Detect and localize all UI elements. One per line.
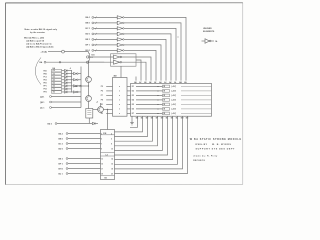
inverter U1C bbox=[117, 27, 124, 31]
svg-text:PD1: PD1 bbox=[44, 79, 47, 81]
diode CR3 row D3 bbox=[132, 94, 212, 97]
wire boxed gate2 output bbox=[122, 62, 146, 80]
svg-text:+3: +3 bbox=[96, 102, 98, 104]
wire Q3 to U2 pin bbox=[103, 109, 112, 111]
input pin P7 bbox=[86, 49, 97, 52]
bottom wire bbox=[57, 123, 89, 125]
border frame bbox=[5, 3, 242, 185]
U2 right pin stub to J1 bbox=[127, 112, 131, 114]
svg-text:R1: R1 bbox=[101, 104, 103, 106]
wire net BD 1 bbox=[94, 33, 118, 35]
svg-text:D1: D1 bbox=[132, 86, 134, 88]
transistor Q3 bbox=[98, 107, 104, 113]
wire gate7 output bbox=[124, 50, 156, 80]
svg-text:19: 19 bbox=[101, 173, 103, 175]
diode CR6 bbox=[89, 122, 98, 124]
U3 header bbox=[101, 133, 115, 135]
input pin QB 1 bbox=[40, 101, 81, 104]
input pin BD 1 bbox=[59, 148, 68, 151]
inverter U1J (boxed) bbox=[114, 60, 122, 64]
svg-text:(2) BA to up (0 V): (2) BA to up (0 V) bbox=[27, 40, 45, 43]
wire bus net BM bbox=[115, 116, 183, 169]
svg-text:(3) Cx to BA-PC (note 1): (3) Cx to BA-PC (note 1) bbox=[27, 43, 52, 46]
svg-text:PE1: PE1 bbox=[44, 83, 47, 85]
input pin BC 1 bbox=[59, 143, 68, 146]
svg-text:QB 1: QB 1 bbox=[40, 102, 44, 104]
inverter U1G bbox=[117, 49, 124, 53]
U3 footer bbox=[101, 176, 115, 180]
U2 left pin P7 bbox=[101, 95, 113, 97]
svg-text:1N: 1N bbox=[163, 91, 165, 93]
wire from net B to gate J bbox=[86, 61, 113, 63]
inverter U1B bbox=[117, 21, 124, 25]
input pin P4 bbox=[86, 33, 97, 36]
wire boxed gate1 output bbox=[122, 57, 151, 81]
pin circle gate I input bbox=[86, 55, 113, 59]
U2 left pin P5 bbox=[101, 86, 113, 88]
U2 internal pin dots bbox=[118, 86, 121, 114]
wire B down bbox=[88, 62, 90, 76]
IC U3 outline bbox=[101, 130, 115, 180]
input pin P3 bbox=[86, 27, 97, 30]
svg-text:SUPPORT SYS DES DEPT: SUPPORT SYS DES DEPT bbox=[196, 149, 236, 151]
svg-text:Note: a make BA-10 signal only: Note: a make BA-10 signal only bbox=[25, 28, 58, 31]
wire BC 1 to U3 bbox=[68, 143, 101, 145]
wire bus net BC bbox=[115, 116, 143, 132]
wire net BB 1 bbox=[94, 22, 118, 24]
svg-text:L1: L1 bbox=[91, 57, 93, 59]
svg-text:(+5V): (+5V) bbox=[172, 109, 177, 111]
wire bus net BD bbox=[115, 116, 148, 136]
svg-text:xx: xx bbox=[157, 86, 159, 88]
dashed enclosure around spare gates bbox=[111, 54, 137, 66]
input pin BE 1 bbox=[59, 158, 68, 161]
wire gate5 output bbox=[124, 39, 166, 80]
wire bus net BF bbox=[115, 116, 158, 146]
U2 left pin R1 bbox=[101, 104, 113, 106]
wire bus net BE bbox=[115, 116, 153, 141]
svg-text:1N: 1N bbox=[163, 100, 165, 102]
delay tap row PH1 bbox=[44, 91, 82, 94]
wire gate3 output bbox=[124, 28, 176, 80]
svg-text:1N: 1N bbox=[163, 86, 165, 88]
wire bus net BJ bbox=[115, 116, 168, 155]
bus wire vertical 1 bbox=[71, 70, 73, 93]
delay tap row PE1 bbox=[44, 81, 72, 84]
U2 right pin stub to J1 bbox=[127, 99, 131, 101]
svg-text:drawn by: R. Piety: drawn by: R. Piety bbox=[193, 155, 218, 158]
diode CR6 row D6 bbox=[132, 108, 212, 111]
wire bus net BH bbox=[115, 116, 163, 150]
svg-text:AJ: AJ bbox=[164, 81, 166, 84]
svg-text:9: 9 bbox=[101, 148, 102, 150]
svg-text:1N: 1N bbox=[163, 95, 165, 97]
svg-text:15: 15 bbox=[101, 163, 103, 165]
stub pin AB bbox=[135, 77, 137, 81]
wire B (BA bus) bbox=[40, 61, 105, 64]
IC U2 outline bbox=[113, 78, 128, 117]
transistor Q1 bbox=[86, 77, 92, 83]
svg-text:PF1: PF1 bbox=[44, 86, 47, 88]
svg-text:ELEMENTS: ELEMENTS bbox=[203, 31, 215, 33]
svg-text:(+5V): (+5V) bbox=[172, 95, 177, 97]
wire gate1 output bbox=[124, 17, 186, 80]
svg-text:1N: 1N bbox=[163, 109, 165, 111]
wire BH 1 to U3 bbox=[68, 168, 101, 170]
wire bus net BL bbox=[115, 116, 178, 164]
svg-text:xx: xx bbox=[157, 113, 159, 115]
svg-text:AL: AL bbox=[174, 81, 176, 84]
border left/top darker bbox=[6, 3, 243, 185]
wire BJ 1 to U3 bbox=[68, 173, 101, 175]
svg-text:3: 3 bbox=[101, 133, 102, 135]
input pin BJ 1 bbox=[59, 173, 68, 176]
U2 left pin R3 bbox=[101, 113, 113, 115]
svg-text:BD 2: BD 2 bbox=[48, 123, 52, 125]
svg-text:PH1: PH1 bbox=[44, 92, 47, 94]
svg-text:L4: L4 bbox=[106, 153, 108, 156]
inductor L1 bbox=[89, 52, 93, 63]
diode CR2 row D2 bbox=[132, 90, 212, 93]
input pin BA 1 bbox=[59, 132, 68, 135]
diode CR1 row D1 bbox=[132, 85, 212, 88]
svg-text:+10 (A): +10 (A) bbox=[41, 50, 48, 53]
svg-text:PC1: PC1 bbox=[44, 76, 47, 78]
wire net BF 1 bbox=[94, 44, 118, 46]
svg-text:R3: R3 bbox=[101, 113, 103, 115]
svg-text:18: 18 bbox=[111, 168, 113, 170]
wire gate6 output bbox=[124, 45, 161, 81]
wire net BA 1 bbox=[94, 16, 118, 18]
U2 right pin stub to J1 bbox=[127, 94, 131, 96]
svg-text:DWG-BY W. B. MYERS: DWG-BY W. B. MYERS bbox=[196, 144, 232, 146]
U2 left pin P8 bbox=[101, 100, 113, 102]
svg-text:Wire(1) PA to + (3V): Wire(1) PA to + (3V) bbox=[24, 36, 44, 39]
delay tap row PB1 bbox=[44, 72, 82, 75]
wire BB 1 to U3 bbox=[68, 138, 101, 140]
inverter U1D bbox=[117, 32, 124, 36]
delay tap row PA1 bbox=[44, 69, 72, 72]
input pin P6 bbox=[86, 44, 97, 47]
delay tap row PC1 bbox=[44, 75, 72, 78]
stray ink dot bbox=[178, 37, 179, 38]
wire bus net BK bbox=[115, 116, 173, 159]
svg-text:4B2: 4B2 bbox=[114, 75, 117, 78]
diode CR5 row D5 bbox=[132, 103, 212, 106]
top pin labels of J1 bbox=[134, 81, 187, 84]
U2 left pin P6 bbox=[101, 91, 113, 93]
U2 right pin stub to J1 bbox=[127, 85, 131, 87]
input pin BB 1 bbox=[59, 138, 68, 141]
wire net BC 1 bbox=[94, 27, 118, 29]
svg-text:B2: B2 bbox=[105, 178, 107, 180]
svg-text:(+5V): (+5V) bbox=[172, 86, 177, 88]
svg-text:xx: xx bbox=[157, 109, 159, 111]
delay tap row PD1 bbox=[44, 78, 82, 81]
diode CR4 row D4 bbox=[132, 99, 212, 102]
inverter U1A bbox=[117, 16, 124, 20]
connector block J1 outline bbox=[131, 84, 212, 117]
wire DL1 to Q3 bbox=[93, 109, 98, 111]
wire BA 1 to U3 bbox=[68, 133, 101, 135]
svg-text:1N: 1N bbox=[163, 113, 165, 115]
svg-text:D5: D5 bbox=[132, 104, 134, 106]
svg-text:10: 10 bbox=[111, 148, 113, 150]
wire BE 1 to U3 bbox=[68, 158, 101, 160]
svg-text:PG1: PG1 bbox=[44, 89, 47, 91]
inverter U1E bbox=[117, 38, 124, 42]
delay tap row PG1 bbox=[44, 88, 72, 91]
svg-text:PB1: PB1 bbox=[44, 73, 47, 75]
transistor Q2 bbox=[86, 96, 92, 102]
svg-text:xx: xx bbox=[157, 104, 159, 106]
input pin BD2 bbox=[48, 123, 57, 126]
wire net BE 1 bbox=[94, 38, 118, 40]
svg-text:W BA STATIC STROBE MODULE: W BA STATIC STROBE MODULE bbox=[190, 138, 242, 141]
wire gate2 output bbox=[124, 23, 181, 81]
wire DL1 to bottom net bbox=[88, 118, 90, 124]
wire Q1 to Q2 bbox=[88, 82, 90, 95]
svg-text:P8: P8 bbox=[101, 100, 103, 102]
svg-text:16: 16 bbox=[111, 163, 113, 165]
input pin P2 bbox=[86, 22, 97, 25]
bottom pin labels of J1 bbox=[136, 118, 189, 120]
svg-text:QC 1: QC 1 bbox=[40, 107, 44, 109]
bus wire vertical 2 bbox=[80, 67, 82, 108]
wire Q2 to DL1 bbox=[88, 101, 90, 108]
svg-text:D7: D7 bbox=[132, 113, 134, 115]
svg-text:UNUSED: UNUSED bbox=[203, 28, 212, 30]
wire net BG 1 bbox=[94, 49, 118, 51]
svg-text:D6: D6 bbox=[132, 109, 134, 111]
U2 right pin stub to J1 bbox=[127, 108, 131, 110]
wire BF 1 to U3 bbox=[68, 163, 101, 165]
svg-text:P6: P6 bbox=[101, 91, 103, 93]
svg-text:(+5V): (+5V) bbox=[172, 104, 177, 106]
wire bus net BB bbox=[130, 116, 138, 127]
svg-text:17: 17 bbox=[101, 168, 103, 170]
inverter U1F bbox=[117, 43, 124, 47]
input cable bracket bbox=[35, 58, 41, 85]
input pin P1 bbox=[86, 16, 97, 19]
U2 right pin stub to J1 bbox=[127, 90, 131, 92]
svg-text:P5: P5 bbox=[101, 86, 103, 88]
svg-text:xx: xx bbox=[157, 91, 159, 93]
title block bbox=[190, 138, 242, 162]
U3 middle divider L4 bbox=[101, 153, 115, 157]
wire gate box to U2 bbox=[120, 66, 122, 77]
ground at J1 pin 1 bbox=[130, 116, 134, 125]
U3 clock pin wire bbox=[107, 109, 108, 130]
svg-text:PA1: PA1 bbox=[44, 69, 47, 72]
diode CR7 row D7 bbox=[132, 112, 212, 115]
delay line DL1 bbox=[86, 109, 93, 119]
input pin QA 1 bbox=[40, 95, 81, 98]
svg-text:(+5V): (+5V) bbox=[172, 91, 177, 93]
svg-text:4: 4 bbox=[70, 67, 71, 70]
handwritten notes bbox=[24, 28, 58, 49]
svg-text:RECHECK: RECHECK bbox=[193, 160, 205, 162]
base pin of Q1 bbox=[75, 85, 90, 88]
inverter U1I (boxed) bbox=[114, 55, 122, 59]
svg-text:(4) BA to BD-10 (possible): (4) BA to BD-10 (possible) bbox=[27, 46, 54, 49]
input pin QC 1 bbox=[40, 107, 81, 110]
svg-text:xx: xx bbox=[157, 95, 159, 97]
svg-text:xx: xx bbox=[157, 100, 159, 102]
spare inverter U1K bbox=[202, 39, 218, 44]
svg-text:(+5V): (+5V) bbox=[172, 113, 177, 115]
wire bus net BN bbox=[115, 116, 188, 173]
svg-text:20: 20 bbox=[111, 173, 113, 175]
svg-text:P7: P7 bbox=[101, 95, 103, 97]
svg-text:(+5V): (+5V) bbox=[172, 100, 177, 102]
wire box to block pin bbox=[136, 60, 141, 81]
svg-text:7: 7 bbox=[101, 143, 102, 145]
wire BD 1 to U3 bbox=[68, 148, 101, 150]
unused elements note bbox=[203, 28, 215, 33]
delay tap row PF1 bbox=[44, 84, 82, 87]
svg-text:D2: D2 bbox=[132, 91, 134, 93]
svg-text:13: 13 bbox=[101, 158, 103, 160]
U2 right pin stub to J1 bbox=[127, 103, 131, 105]
svg-text:5: 5 bbox=[101, 138, 102, 140]
wire gate4 output bbox=[124, 34, 171, 81]
Q3 collector stub bbox=[96, 102, 101, 107]
svg-text:QA 1: QA 1 bbox=[40, 95, 44, 98]
svg-text:D4: D4 bbox=[132, 99, 134, 102]
input pin BF 1 bbox=[59, 163, 68, 166]
svg-text:AF: AF bbox=[154, 81, 156, 84]
wire A (+10) bbox=[41, 50, 89, 53]
svg-text:D3: D3 bbox=[132, 95, 134, 97]
input pin BH 1 bbox=[59, 168, 68, 171]
svg-text:1N: 1N bbox=[163, 104, 165, 106]
svg-text:by the counter: by the counter bbox=[30, 31, 45, 34]
input pin P5 bbox=[86, 38, 97, 41]
